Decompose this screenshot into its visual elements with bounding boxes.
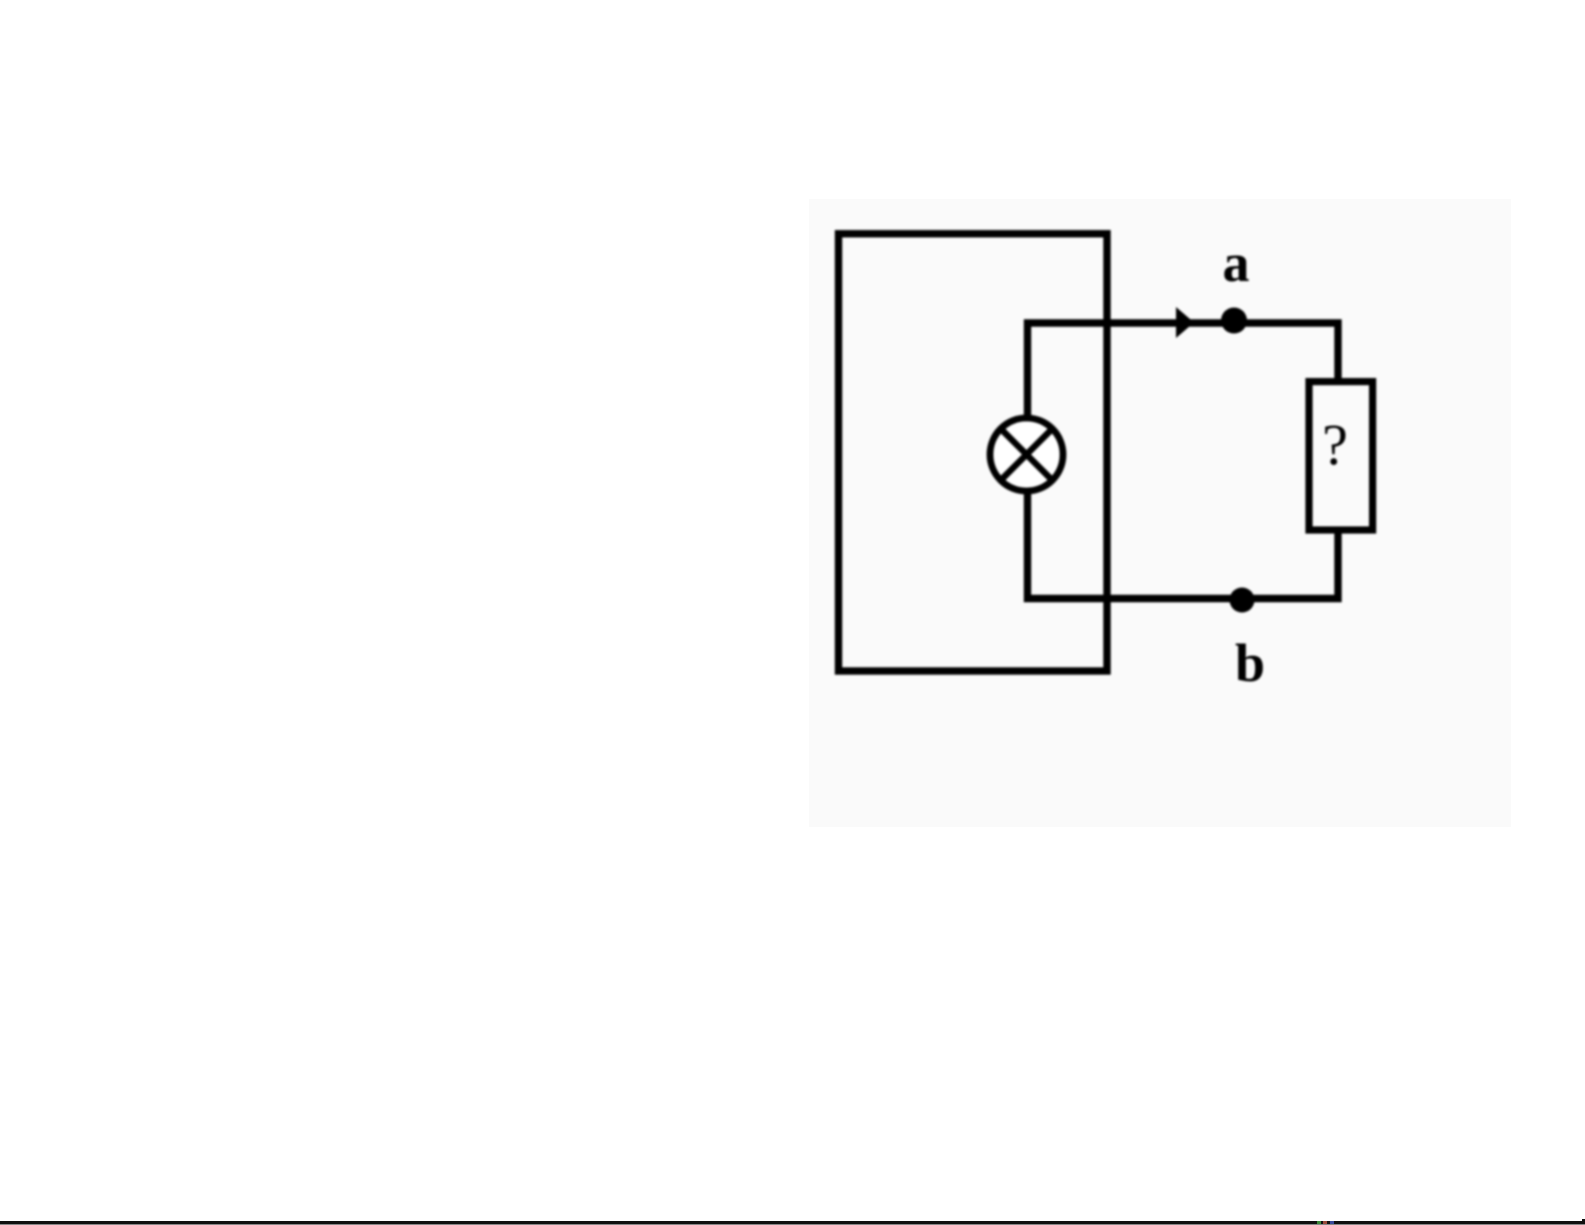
scanned-image backdrop	[809, 199, 1511, 827]
svg-text:a: a	[1223, 233, 1250, 293]
node b (junction dot)	[1230, 588, 1255, 613]
bottom rule right tick	[1582, 1219, 1585, 1222]
svg-text:?: ?	[1322, 412, 1348, 477]
wire (lamp branch: top lead, top wire to right corner, down to resistor top)	[1028, 323, 1339, 419]
battery box (outer rectangle)	[839, 234, 1108, 671]
bottom rule	[0, 1221, 1585, 1225]
svg-text:b: b	[1235, 633, 1265, 693]
current arrow	[1176, 307, 1194, 338]
lamp L1 (circle with X)	[990, 418, 1063, 491]
lamp L1 diagonals	[1001, 429, 1053, 481]
node a (junction dot)	[1221, 308, 1247, 334]
wire (resistor bottom to bottom wire, back to lamp bottom lead)	[1028, 490, 1339, 599]
bottom rule colored specks	[1317, 1221, 1321, 1224]
resistor ? (unknown element box)	[1309, 382, 1373, 530]
